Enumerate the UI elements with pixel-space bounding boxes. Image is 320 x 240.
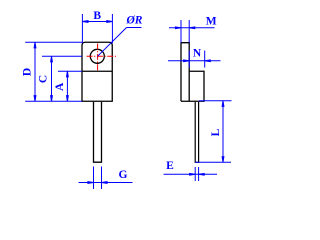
- svg-text:G: G: [119, 169, 128, 181]
- left view: hole vertical centerline: [97, 44, 99, 72]
- dimension M extension lines: [181, 20, 189, 43]
- shared bottom extension line (D,C,A): [25, 100, 82, 102]
- right view: tab side outline: [181, 43, 189, 102]
- svg-text:A: A: [54, 82, 66, 91]
- svg-text:L: L: [210, 128, 222, 136]
- dimension D top extension line: [25, 41, 82, 43]
- svg-text:ØR: ØR: [126, 15, 143, 27]
- dimension N extension lines: [189, 51, 205, 68]
- dimension G line with outside arrows: [79, 182, 133, 184]
- svg-text:B: B: [93, 10, 101, 22]
- dimension E extension lines: [195, 167, 198, 181]
- dimension M line with outside arrows: [169, 27, 215, 29]
- dimension D line with arrows: [34, 42, 36, 101]
- svg-text:D: D: [21, 68, 33, 76]
- dimension C top extension line: [42, 55, 82, 57]
- dimension A line with arrows: [67, 71, 69, 101]
- dimension N line with outside arrows: [168, 60, 221, 62]
- dimension A top extension line: [58, 70, 82, 72]
- svg-text:M: M: [206, 16, 217, 28]
- left view: hole horizontal centerline: [87, 55, 117, 57]
- dimension B line with arrows: [82, 21, 112, 23]
- dimension E line with outside arrows: [164, 173, 218, 175]
- dimension B extension lines: [82, 14, 112, 43]
- right view: body side outline: [181, 71, 204, 101]
- dimension L bottom extension line: [195, 161, 231, 163]
- left view: mounting hole: [90, 49, 104, 63]
- dimension C line with arrows: [51, 56, 53, 101]
- right view: lead side outline: [195, 102, 198, 162]
- svg-text:E: E: [166, 160, 174, 172]
- left view: package tab+body outline: [82, 42, 112, 101]
- svg-text:C: C: [38, 75, 50, 83]
- svg-text:N: N: [193, 47, 202, 59]
- left view: lead outline: [94, 102, 102, 162]
- dimension G extension lines: [94, 167, 102, 190]
- dimension L line with arrows: [222, 101, 224, 163]
- left view: tab/body divider line: [82, 70, 112, 72]
- dimension L top extension line: [199, 100, 232, 102]
- hole diameter leader line: [98, 28, 142, 57]
